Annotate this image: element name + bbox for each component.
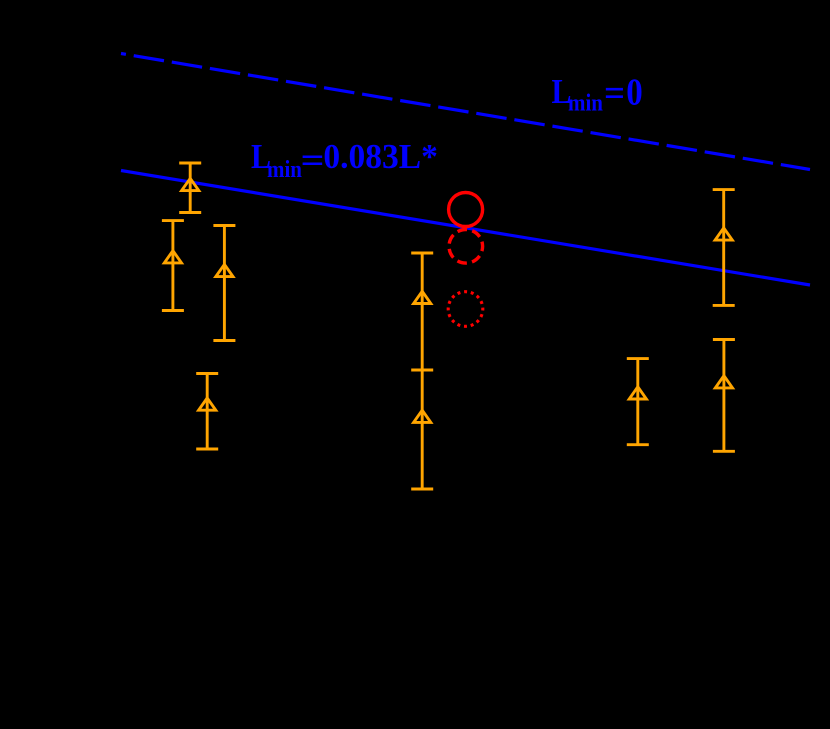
data point 9: triangle with error bar (lower right)	[713, 340, 735, 452]
dashed red circle	[449, 230, 483, 264]
dashed model line Lmin=0	[121, 54, 810, 170]
label Lmin=0	[552, 71, 643, 116]
data point 6: triangle with error bar (lower middle)	[411, 370, 433, 489]
label Lmin=0.083L*	[251, 137, 438, 182]
data point 7: triangle with error bar (upper right)	[713, 190, 735, 306]
solid model line Lmin=0.083L*	[121, 171, 810, 286]
data point 3: triangle with error bar	[213, 226, 235, 341]
data point 5: triangle with error bar (upper middle)	[411, 253, 433, 370]
data point 1: triangle with error bar	[179, 163, 201, 213]
data point 2: triangle with error bar	[162, 221, 184, 311]
data point 4: triangle with error bar	[196, 374, 218, 450]
data point 8: triangle with error bar (lower middle-right)	[627, 359, 649, 445]
dotted red circle	[448, 292, 483, 327]
solid red circle	[449, 193, 483, 227]
